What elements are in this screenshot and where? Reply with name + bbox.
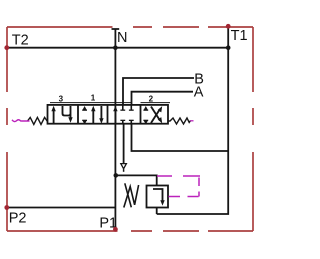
wire A lower branch to T1 drop [132,125,229,152]
position label underline right [141,102,171,104]
relief valve V1 body [147,186,169,208]
center box blocked port B bottom [120,120,125,125]
box 1 blocked port bottom [82,120,87,125]
wire B lower branch stub [123,125,125,164]
svg-text:N: N [117,30,127,46]
open flow arrowhead on B lower branch [121,164,127,169]
box 1 up arrow [91,106,95,124]
wire T2 to T1 tank line [7,47,228,49]
position label underline left [50,102,132,104]
relief valve pilot line (magenta dashed) [157,176,200,197]
left pilot drain (magenta wave) [12,120,30,122]
wire N riser with end bar [112,29,120,229]
enclosure dashed boundary top [7,27,253,231]
junction node at T1 drop on tank line [226,45,231,50]
right pilot stub (magenta) [190,120,193,122]
svg-text:2: 2 [149,94,154,103]
enclosure dashed boundary left [6,27,8,231]
wire B work port line [123,78,194,105]
center box through-flow up arrow (P to N) [113,106,117,124]
svg-text:T1: T1 [231,28,248,44]
box 3 U-turn flow path with down arrow [63,106,73,123]
svg-text:A: A [194,84,204,100]
relief valve internal flow arrow [153,189,165,206]
wire T1 drop [157,26,229,214]
enclosure dashed boundary bottom [7,230,253,232]
center box blocked port A top [129,105,134,111]
junction node P line to relief branch [114,173,119,178]
box 2 blocked port bottom [143,120,148,125]
wire A work port line [132,92,194,105]
box 3 up arrow [51,106,55,123]
port dot P1 on boundary [113,227,118,232]
junction node at N on tank line [113,45,118,50]
box 1 blocked port top [82,106,87,111]
left return spring [28,117,48,124]
svg-text:P2: P2 [9,210,27,226]
svg-text:1: 1 [91,94,96,103]
port dot T2 on boundary [4,45,9,50]
right return spring [168,118,191,124]
wire P branch to relief valve [116,175,157,185]
directional valve U1 body (4 position boxes) [48,105,169,124]
relief valve spring (adjustable) [125,183,132,207]
port dot P2 on boundary [4,205,9,210]
svg-text:T2: T2 [12,32,29,48]
svg-text:3: 3 [59,94,64,103]
center box blocked port A bottom [129,120,134,125]
wire P2 pressure line [7,207,116,209]
box 2 blocked port top [143,106,148,111]
box 2 crossed flow arrows [151,106,162,123]
box 1 down arrow [99,106,103,124]
port dot T1 on boundary [226,24,231,29]
center box blocked port B top [120,105,125,111]
wire relief valve outlet [156,208,158,215]
enclosure dashed boundary right [252,27,254,231]
